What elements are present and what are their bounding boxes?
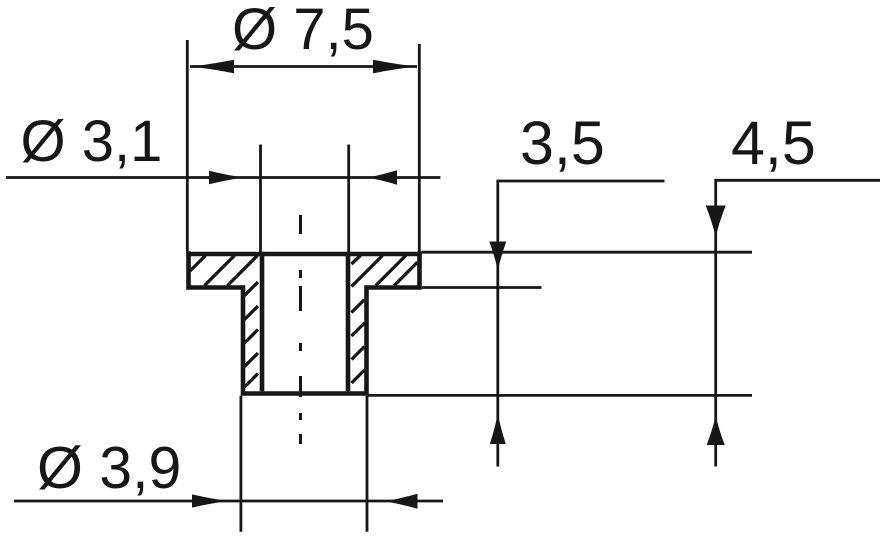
extension line sleeve left bottom (for Ø 3,9) <box>239 396 242 532</box>
arrowhead Ø 3,9 right <box>384 494 418 509</box>
dimension line Ø 3,1 <box>6 176 440 179</box>
extension line hole right (for Ø 3,1) <box>347 145 350 253</box>
dimension line 4,5 (vertical) <box>714 179 717 467</box>
arrowhead 3,5 top <box>489 242 506 272</box>
hatching left sleeve wall <box>245 282 259 387</box>
hatching right sleeve wall <box>352 300 365 384</box>
dimension line Ø 7,5 <box>190 65 417 68</box>
arrowhead Ø 3,9 left <box>192 494 229 507</box>
arrowhead Ø 3,1 left <box>209 171 244 185</box>
arrowhead 4,5 top <box>706 206 726 238</box>
hole left edge (section edge) <box>260 252 265 391</box>
extension line shoulder right (for 3,5) <box>422 286 542 289</box>
extension line flange right (for Ø 7,5) <box>418 44 421 252</box>
hatching left flange band <box>190 256 258 286</box>
arrowhead 3,5 bottom <box>490 413 506 444</box>
extension line sleeve right bottom (for Ø 3,9) <box>366 396 369 532</box>
extension line flange left (for Ø 7,5) <box>186 40 189 252</box>
arrowhead Ø 3,1 right <box>367 170 398 184</box>
arrowhead 4,5 bottom <box>707 415 725 445</box>
arrowhead Ø 7,5 left <box>190 60 234 74</box>
extension line sleeve bottom right (for 3,5 / 4,5) <box>368 394 752 397</box>
extension line hole left (for Ø 3,1) <box>259 145 262 253</box>
center line (vertical dash-dot axis) <box>299 215 302 444</box>
svg-text:4,5: 4,5 <box>731 109 816 177</box>
arrowhead Ø 7,5 right <box>373 60 417 74</box>
leader line 3,5 <box>498 180 665 183</box>
leader line 4,5 <box>716 179 880 182</box>
svg-text:Ø 7,5: Ø 7,5 <box>232 0 374 62</box>
svg-text:Ø 3,1: Ø 3,1 <box>21 109 163 174</box>
hatching right flange band <box>352 256 418 287</box>
dimension line 3,5 (vertical) <box>496 180 499 467</box>
svg-text:Ø 3,9: Ø 3,9 <box>37 435 181 501</box>
svg-text:3,5: 3,5 <box>520 109 605 177</box>
hole right edge (section edge) <box>346 252 351 391</box>
dimension line Ø 3,9 <box>14 500 443 503</box>
extension line flange top right (for 3,5 / 4,5) <box>422 251 752 254</box>
part outline: bushing cross-section (flange + sleeve) <box>186 251 422 393</box>
